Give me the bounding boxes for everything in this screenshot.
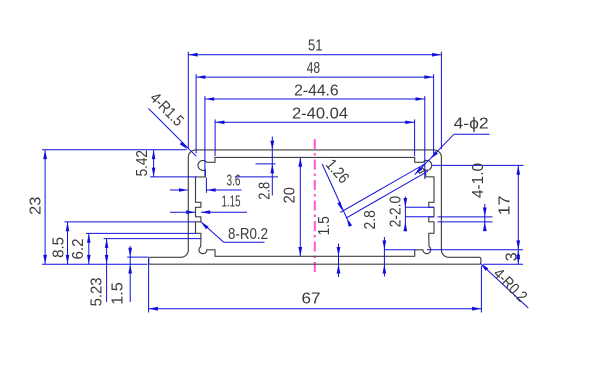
svg-text:1.5: 1.5 xyxy=(110,282,127,305)
svg-text:6.2: 6.2 xyxy=(70,238,87,259)
svg-text:8.5: 8.5 xyxy=(51,237,68,258)
svg-text:2.8: 2.8 xyxy=(256,182,273,200)
svg-text:48: 48 xyxy=(307,60,321,77)
svg-text:3: 3 xyxy=(504,252,521,261)
svg-text:51: 51 xyxy=(308,38,323,55)
svg-text:4-ϕ2: 4-ϕ2 xyxy=(454,116,489,133)
svg-text:5.42: 5.42 xyxy=(134,150,151,176)
svg-text:2-2.0: 2-2.0 xyxy=(388,196,405,228)
svg-text:5.23: 5.23 xyxy=(89,277,106,306)
svg-text:8-R0.2: 8-R0.2 xyxy=(228,226,268,243)
svg-text:2-40.04: 2-40.04 xyxy=(292,106,348,123)
svg-text:23: 23 xyxy=(27,197,44,215)
svg-text:1.5: 1.5 xyxy=(316,216,333,235)
svg-text:1.15: 1.15 xyxy=(222,193,241,210)
svg-text:17: 17 xyxy=(497,195,514,215)
svg-text:20: 20 xyxy=(282,187,299,203)
svg-text:67: 67 xyxy=(302,290,321,307)
svg-text:4-1.0: 4-1.0 xyxy=(470,163,487,198)
svg-text:2.8: 2.8 xyxy=(362,210,379,229)
svg-text:2-44.6: 2-44.6 xyxy=(294,83,339,100)
svg-text:3.6: 3.6 xyxy=(227,173,241,190)
